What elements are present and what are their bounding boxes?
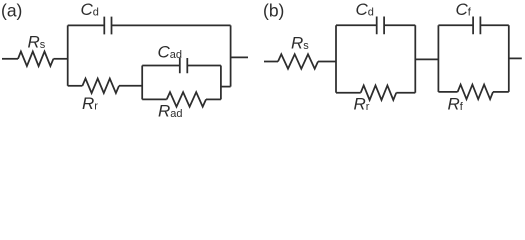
svg-text:(b): (b) <box>263 1 284 21</box>
svg-text:Rs: Rs <box>28 33 46 52</box>
wire box2 right vertical (b) <box>508 25 510 92</box>
wire inner box right vertical (a) <box>220 66 222 100</box>
svg-text:Cad: Cad <box>158 42 183 61</box>
wire box1 right vertical (b) <box>414 25 416 92</box>
svg-text:(a): (a) <box>1 1 22 21</box>
capacitor Cad (a) <box>180 58 188 73</box>
wire right rail (a) <box>230 25 232 86</box>
wire inner top rail right (a) <box>187 65 221 67</box>
wire middle connector (b) <box>415 58 438 60</box>
wire Rs to node (a) <box>53 58 67 60</box>
svg-text:Rr: Rr <box>354 95 370 114</box>
resistor Rad (a) <box>167 92 206 107</box>
wire box2 left vertical (b) <box>437 25 439 92</box>
wire box2 bottom rail left (b) <box>438 91 457 93</box>
wire inner top rail left (a) <box>142 65 180 67</box>
wire Rr to box1 right (b) <box>396 92 415 94</box>
wire Rr to inner box (a) <box>119 85 142 87</box>
wire box1 top rail left (b) <box>336 24 377 26</box>
resistor Rf (b) <box>458 85 493 100</box>
wire output stub (a) <box>231 56 248 58</box>
svg-text:Cd: Cd <box>356 0 374 19</box>
svg-text:Rad: Rad <box>158 102 183 119</box>
capacitor Cd (a) <box>104 17 111 35</box>
capacitor Cf (b) <box>473 17 480 35</box>
wire box2 top rail right (b) <box>480 24 508 26</box>
wire left junction vertical (a) <box>67 25 69 85</box>
wire inner bottom rail left (a) <box>142 98 167 100</box>
wire Rf to box2 right (b) <box>493 91 509 93</box>
wire Rad to inner right (a) <box>206 98 221 100</box>
wire top rail left (a) <box>68 24 105 26</box>
svg-text:Rr: Rr <box>82 94 98 113</box>
resistor Rs (b) <box>278 54 318 69</box>
svg-text:Cd: Cd <box>81 0 99 19</box>
wire bottom branch left (a) <box>68 85 83 87</box>
wire top rail right (a) <box>112 24 231 26</box>
svg-text:Rf: Rf <box>448 95 464 114</box>
svg-text:Rs: Rs <box>291 34 309 53</box>
wire inner box left vertical (a) <box>141 66 143 100</box>
resistor Rr (a) <box>82 79 119 94</box>
wire Rs to box1 (b) <box>318 61 336 63</box>
wire box1 top rail right (b) <box>384 24 415 26</box>
wire input b <box>264 61 278 63</box>
resistor Rr (b) <box>361 85 397 100</box>
wire box2 top rail left (b) <box>438 24 473 26</box>
capacitor Cd (b) <box>377 17 384 35</box>
resistor Rs (a) <box>18 52 53 67</box>
svg-text:Cf: Cf <box>456 0 472 19</box>
wire input a <box>2 58 18 60</box>
wire inner box tap to right rail (a) <box>221 86 231 88</box>
wire output stub (b) <box>509 57 522 59</box>
wire box1 bottom rail left (b) <box>336 92 361 94</box>
wire box1 left vertical (b) <box>335 25 337 92</box>
